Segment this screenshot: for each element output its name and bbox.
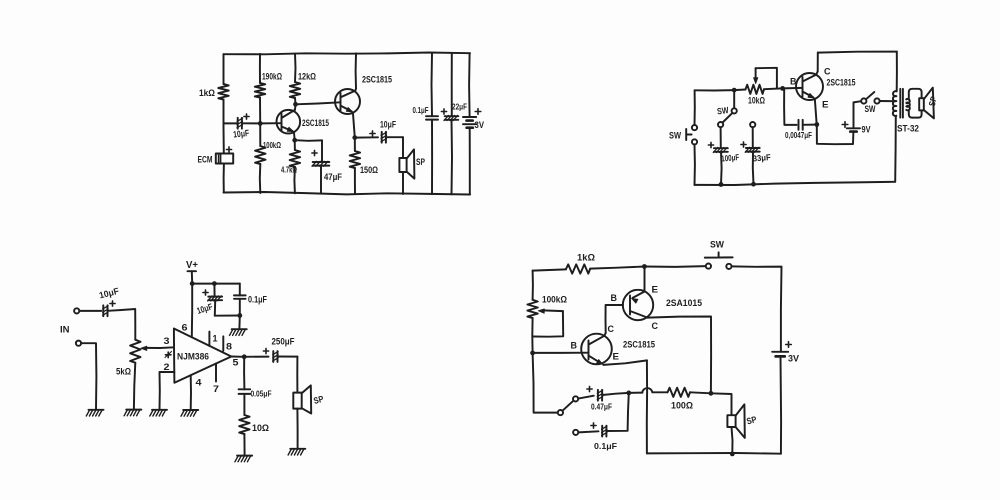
capacitor C8 terminal [750,122,755,127]
wire [278,356,298,358]
label C1 plus [244,114,249,119]
svg-text:100Ω: 100Ω [671,401,693,411]
wiper arrow R11 [533,309,563,337]
wire [694,145,696,185]
label SP4 [745,414,757,426]
node base Q3 [780,86,785,91]
wire emitter Q4 [644,267,646,292]
ground [150,410,167,416]
wire emitter Q2 [353,112,355,137]
svg-text:190kΩ: 190kΩ [262,72,282,82]
wire [720,152,723,185]
wire [734,89,745,92]
wire [79,310,101,312]
wire [262,122,282,124]
ground [288,449,305,455]
svg-text:33μF: 33μF [752,152,771,164]
label Q3 type [827,78,856,88]
label R5 value [281,165,297,175]
speaker SP1 [399,149,414,178]
wire [533,352,589,354]
wire [239,284,241,296]
svg-text:10kΩ: 10kΩ [748,96,765,106]
resistor R5 4.7k&#937; [290,150,300,167]
wire [720,127,722,148]
resistor R6 150&#937; [350,151,360,168]
wire [764,87,783,90]
label C4 value [413,105,429,115]
wire emitter Q5 [603,360,647,365]
svg-text:ST-32: ST-32 [897,124,919,135]
label Q4 C [652,321,659,332]
node [732,88,737,93]
wire [259,54,261,83]
node [719,182,724,187]
wire [694,90,696,125]
label C15 value [594,441,617,451]
wire bottom rail (circuit 4) [647,452,781,455]
label R7 value [748,96,765,106]
pin1 stub [208,332,210,346]
label pin6 [182,323,188,334]
wire [469,128,471,195]
wire [603,393,629,395]
label R11 value [542,295,567,305]
op-amp U1 NJM386 [174,329,231,383]
wire [191,271,193,283]
svg-text:5: 5 [233,358,240,369]
label pin1 [213,334,219,345]
label pin3 [164,336,170,347]
svg-text:3V: 3V [475,120,485,131]
wire [134,363,135,409]
label SW3 [716,105,729,117]
label Q5 type [623,340,655,350]
switch SW5 [558,396,578,415]
capacitor C11 10&#956;F [103,305,108,316]
svg-text:5kΩ: 5kΩ [116,367,131,378]
svg-text:C: C [824,67,831,78]
battery BT3 3V [772,352,788,357]
label SW4 [710,240,724,251]
capacitor C14 0.47&#956;F [597,390,602,401]
wire [231,356,244,358]
svg-text:E: E [613,352,620,363]
svg-text:100kΩ: 100kΩ [542,295,567,305]
wire [296,357,298,393]
wire pin6 [191,284,193,338]
switch SW1 [686,125,697,144]
label Q3 E [822,100,829,111]
label SP2 [927,95,939,107]
svg-text:10Ω: 10Ω [252,423,269,434]
wire [468,53,471,117]
wire [896,52,898,92]
wire emitter Q3 [815,99,817,125]
node collector Q1 [293,102,298,107]
wire [752,152,755,185]
label C14 value [591,402,612,412]
wire wiper loop R7 [756,68,777,88]
svg-text:E: E [822,100,829,111]
resistor R7 10k&#937; variable [746,85,765,94]
svg-text:250μF: 250μF [272,337,295,347]
label Q4 E [652,285,659,296]
label R4 value [263,140,281,150]
battery BT2 9V [847,128,860,131]
label BT3 value [788,354,800,365]
wire [578,396,594,399]
capacitor C9 10&#956;F [208,296,223,301]
svg-text:2SC1815: 2SC1815 [362,75,392,85]
wire collector Q1 [294,104,297,110]
label SW2 [865,104,876,114]
node V+ [190,281,195,286]
wire [215,315,240,317]
wire [431,53,434,116]
label BT1 value [475,120,485,131]
label C8 value [752,152,771,164]
wire top rail (circuit 2) [818,52,897,53]
wire [223,100,225,154]
transistor Q4 2SA1015 [623,290,653,320]
capacitor C13 0.05&#956;F [239,389,251,394]
svg-text:10μF: 10μF [380,120,396,130]
wire [244,356,268,358]
wire [732,427,733,454]
label BT2 plus [842,122,848,128]
wire [803,124,815,126]
label C12 value [272,337,295,347]
svg-text:4: 4 [196,378,203,389]
label U1 [177,352,209,362]
label pin2 [164,362,170,373]
svg-text:0.1μF: 0.1μF [594,441,617,451]
wire [214,300,216,315]
wire [354,138,356,151]
label Q2 type [362,75,392,85]
resistor R10 1k&#937; [566,264,590,273]
node base Q1 [258,121,263,126]
label C5 plus [441,109,446,114]
label C1 value [233,128,250,140]
wire [354,168,356,194]
ground [124,410,141,416]
resistor R9 10&#937; [239,415,249,434]
label IN [60,325,70,336]
label pin8 [226,342,232,353]
wire [259,98,261,124]
wire [533,269,566,270]
label C8 plus [741,142,746,147]
wiper arrow R7 [754,68,758,83]
speaker SP4 [727,404,744,438]
wire top supply rail (circuit 1) [224,53,471,55]
svg-text:C: C [652,321,659,332]
label C3 value [380,120,396,130]
svg-text:7: 7 [213,384,219,395]
wire collector Q2 [354,53,357,90]
label R6 value [360,165,378,175]
label BT3 plus [786,342,792,348]
wire [213,284,215,297]
wire [752,127,754,147]
ground [235,456,252,462]
wiper arrow R8 [141,346,174,350]
wire [733,90,735,108]
label C2 plus [312,150,317,155]
wire [294,54,297,82]
wire [817,125,854,145]
node emitter Q3 [814,122,819,127]
label C11 value [98,286,120,301]
label C7 value [721,152,740,164]
label C7 plus [708,142,713,147]
capacitor C15 0.1&#956;F [602,426,607,437]
label SW1 [669,131,681,142]
label Q3 B [790,77,797,88]
wire [590,267,644,269]
capacitor C4 0.1&#956;F [426,116,438,119]
label C14 plus [587,386,592,391]
wire [259,123,261,146]
wire [238,316,240,329]
battery BT1 3V [463,117,476,128]
resistor R2 190k&#937; [255,83,265,98]
wire [402,172,404,194]
speaker SP2 cone [924,88,934,119]
speaker SP3 [293,385,311,413]
pin8 stub [222,336,224,350]
svg-text:ECM: ECM [198,155,213,166]
label Q4 B [611,293,618,304]
ground [181,410,198,416]
wire [894,116,897,182]
wire [224,122,238,124]
speaker SP2 frame [909,89,922,118]
label T1 [897,124,919,135]
svg-text:0.1μF: 0.1μF [248,295,267,305]
svg-text:2SA1015: 2SA1015 [666,298,702,308]
label pin7 [213,384,219,395]
svg-text:IN: IN [60,325,70,336]
wire bottom ground rail (circuit 1) [224,192,471,195]
svg-text:3V: 3V [788,354,800,365]
label R10 value [577,253,595,264]
wire [783,87,785,89]
wire [780,356,783,453]
node [642,264,647,269]
wire [533,353,558,413]
transistor Q5 2SC1815 [581,334,612,365]
label BT1 plus [475,109,481,115]
resistor R4 100k&#937; [255,146,265,164]
capacitor C10 0.1&#956;F [234,295,246,298]
label C2 value [324,172,342,182]
wire [239,299,241,316]
wire [243,434,245,455]
wire [606,305,624,333]
svg-text:E: E [652,285,659,296]
svg-text:B: B [611,293,618,304]
label C11 plus [110,301,115,306]
wire [259,164,262,193]
node base Q5 [530,351,535,356]
wire [296,409,298,448]
node [237,313,242,318]
resistor R11 100k&#937; variable [527,300,537,318]
ground [230,329,247,335]
svg-text:150Ω: 150Ω [360,165,378,175]
wire [294,140,296,150]
wire [296,102,341,104]
svg-text:22μF: 22μF [452,102,467,112]
svg-text:SW: SW [669,131,681,142]
svg-text:SW: SW [716,105,729,117]
wire [243,394,245,415]
label BT2 value [862,125,871,135]
resistor R3 12k&#937; [290,82,300,98]
terminal V+ [186,260,198,271]
node [730,452,735,457]
wire emitter Q1 [293,132,296,140]
wire [644,265,706,268]
svg-text:B: B [790,77,797,88]
svg-text:0.47μF: 0.47μF [591,402,612,412]
wire [854,101,862,128]
label Q4 type [666,298,702,308]
svg-text:3: 3 [164,336,170,347]
wire [880,100,894,102]
capacitor C15 terminal [573,430,578,435]
label C12 plus [263,348,268,353]
wire [320,166,322,194]
wire [731,266,781,351]
wire [695,89,735,91]
label R2 value [262,72,282,82]
wire [108,309,135,340]
pin7 stub [215,364,217,382]
label pin5 [233,358,240,369]
wire [242,122,258,124]
svg-text:0.1μF: 0.1μF [413,105,429,115]
microphone ECM [216,154,233,164]
wire [451,120,454,195]
wire [532,271,534,300]
transistor Q3 2SC1815 [796,73,823,100]
node [626,391,631,396]
svg-text:2SC1815: 2SC1815 [827,78,856,88]
wire [293,167,296,193]
node [751,182,756,187]
capacitor C6 0.0047&#956;F [799,120,803,130]
label Q5 E [613,352,620,363]
wire [607,393,629,431]
transistor Q2 2SC1815 [335,89,360,114]
svg-text:9V: 9V [862,125,871,135]
svg-text:B: B [571,341,578,352]
svg-text:NJM386: NJM386 [177,352,209,362]
wire [711,393,732,415]
resistor R12 100&#937; [668,388,691,397]
node [212,281,217,286]
wire pin4 [190,375,192,409]
wire hop over emitter wire [629,388,668,393]
svg-text:6: 6 [182,323,188,334]
label C9 value [196,301,215,316]
wire [784,88,796,125]
capacitor C2 47&#956;F [312,161,329,166]
capacitor C5 22&#956;F [444,116,458,121]
transistor Q1 2SC1815 [277,110,301,134]
wire [431,120,433,195]
node emitter Q2 [352,135,357,140]
wire emitter drop [646,360,648,453]
label pin4 [196,378,203,389]
label noninverting plus [165,352,172,358]
transformer T1 secondary [906,99,910,110]
wire [402,137,404,158]
svg-text:100kΩ: 100kΩ [263,140,281,150]
terminal IN bottom [76,341,81,346]
capacitor C12 250&#956;F [273,351,278,362]
label ECM plus [226,147,231,152]
capacitor C7 100&#956;F [713,148,728,153]
svg-text:SP: SP [416,157,425,168]
wire [295,139,322,142]
node [709,391,714,396]
svg-text:1kΩ: 1kΩ [199,88,215,99]
svg-text:1: 1 [213,334,219,345]
label Q1 type [302,118,329,128]
svg-text:10μF: 10μF [233,128,250,140]
resistor R8 5k&#937; [130,340,140,363]
svg-text:12kΩ: 12kΩ [298,72,316,82]
wire collector Q3 [816,53,818,75]
capacitor C8 33&#956;F [745,147,760,152]
transformer T1 core [900,89,903,118]
capacitor C3 10&#956;F [381,132,386,143]
terminal IN top [74,308,79,313]
label SP1 [416,157,425,168]
switch SW3 [718,108,737,127]
transformer T1 ST-32 primary [893,91,897,116]
svg-text:V+: V+ [186,260,198,271]
node pin5 [242,354,247,359]
svg-text:100μF: 100μF [721,152,740,164]
label C13 value [251,389,272,399]
svg-text:0,0047μF: 0,0047μF [785,130,812,140]
wire [451,53,453,116]
wire [243,357,245,390]
wire bottom rail (circuit 2) [695,182,896,185]
wire collector Q4 [648,317,712,394]
label Q5 B [571,341,578,352]
wire [355,136,378,138]
wire pin2 [160,372,175,409]
label R12 value [671,401,693,411]
wire [223,54,225,84]
label R1 value [199,88,215,99]
wire [223,164,225,193]
wire [578,431,598,432]
label C15 plus [591,423,596,428]
node emitter Q1 [292,138,297,143]
wire [690,392,711,393]
label Q3 C [824,67,831,78]
svg-text:1kΩ: 1kΩ [577,253,595,264]
svg-text:8: 8 [226,342,232,353]
